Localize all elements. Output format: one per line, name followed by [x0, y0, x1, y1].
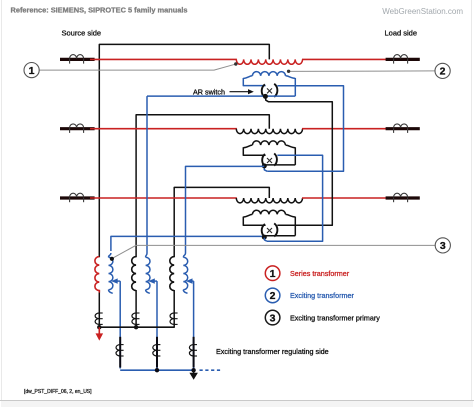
wire AR loop bottom L1 [147, 95, 295, 97]
svg-text:2: 2 [440, 66, 446, 78]
node AR output L3 [262, 235, 267, 240]
winding symbol column3 [170, 313, 174, 324]
wire jog L2 output [264, 166, 267, 171]
node regulating bus column3 [191, 368, 195, 372]
svg-text:1: 1 [29, 65, 35, 77]
legend item 1 series transformer [265, 266, 280, 281]
callout circle 3 [435, 238, 450, 253]
wire column1 red tail [98, 290, 100, 293]
wire AR loop left L3 [243, 214, 252, 217]
svg-text:3: 3 [440, 240, 446, 252]
node bus column1 [97, 325, 101, 329]
exciting transformer primary winding column2 [132, 257, 136, 291]
wire jog L3 output [264, 238, 267, 242]
wire regulating bus continuation dashed [200, 369, 223, 371]
wire AR loop right L3 [286, 214, 296, 217]
wire AR output L1 to L3 loop [265, 97, 332, 225]
svg-text:3: 3 [270, 312, 276, 324]
node regulating bus [155, 368, 159, 372]
AR switch contact arcs L1 [262, 84, 265, 97]
wire center-tap feed L3 [174, 187, 269, 257]
CT source side L3 [60, 196, 95, 199]
wire tap lead column1 [119, 281, 121, 368]
node AR output L2 [262, 163, 267, 168]
svg-text:AR switch: AR switch [193, 87, 225, 96]
regulating winding symbol column2 [156, 337, 158, 368]
wire tap lead column2 [156, 281, 158, 368]
exciting transformer secondary winding L1 [252, 72, 285, 76]
callout circle 2 [435, 63, 450, 78]
exciting transformer secondary winding L3 [252, 210, 285, 214]
exciting transformer secondary winding L2 [252, 141, 285, 145]
exciting transformer primary winding column3 [170, 257, 174, 291]
wire column2 lower [135, 290, 137, 328]
tap arrow column1 [117, 280, 121, 282]
wire exciting secondary L1 link [267, 86, 343, 172]
legend item 3 exciting transformer primary [265, 310, 280, 325]
winding symbol column2 [132, 313, 136, 324]
series transformer winding L1 [236, 59, 302, 64]
regulating winding symbol column1 [119, 337, 121, 368]
AR switch selector cross L3 [267, 228, 272, 233]
svg-text:2: 2 [270, 290, 276, 302]
node AR output L1 [263, 94, 268, 99]
svg-text:1: 1 [270, 268, 276, 280]
terminal arrow exciting primary [98, 327, 100, 334]
AR switch contact arcs L3 [262, 224, 265, 237]
wire regulating feed column2 [146, 96, 148, 253]
wire AR loop right L2 [286, 145, 296, 148]
CT source side L2 [60, 127, 95, 130]
leader callout 2 [289, 70, 435, 73]
wire tap lead column3 [193, 281, 195, 368]
CT load side L2 [386, 127, 420, 130]
svg-text:Load side: Load side [385, 28, 418, 37]
leader callout 1 [39, 64, 235, 70]
series transformer winding L2 [236, 129, 302, 134]
winding symbol column1 [95, 313, 99, 324]
legend item 2 exciting transformer [265, 288, 280, 303]
svg-text:Exciting transformer primary: Exciting transformer primary [290, 313, 380, 322]
wire phase L3 source segment [90, 197, 237, 199]
regulating-side bus [120, 369, 193, 371]
wire center-tap feed L2 [136, 115, 269, 258]
AR switch selector cross L1 [267, 88, 272, 93]
regulating winding column3 [183, 253, 185, 257]
svg-text:Source side: Source side [62, 28, 102, 37]
regulating winding symbol column3 [193, 337, 195, 368]
svg-text:Exciting transformer: Exciting transformer [290, 291, 355, 300]
wire phase L2 source segment [90, 128, 237, 130]
node bus column2 [134, 325, 138, 329]
series transformer winding L3 [236, 198, 302, 203]
tap arrow column3 [191, 280, 193, 282]
star-point bus exciting primary [99, 326, 174, 328]
wire regulating feed column3 [186, 166, 265, 253]
svg-text:Series transformer: Series transformer [290, 269, 350, 278]
svg-text:[dw_PST_DIFF_06, 2, en_US]: [dw_PST_DIFF_06, 2, en_US] [24, 389, 92, 395]
wire AR loop right L1 [286, 76, 296, 79]
wire AR loop bottom L2 [263, 164, 295, 166]
CT load side L3 [386, 196, 420, 199]
terminal arrow regulating side [193, 370, 195, 373]
wire column3 lower [173, 290, 175, 328]
wire AR loop left L1 [243, 76, 252, 79]
wire regulating feed column1 [111, 236, 264, 251]
svg-text:Exciting transformer regulatin: Exciting transformer regulating side [216, 347, 329, 356]
wire phase L3 load segment [302, 197, 389, 199]
wire AR loop left L2 [243, 145, 252, 148]
wire phase L1 source segment [90, 58, 237, 60]
wire phase L1 load segment [302, 58, 389, 60]
wire AR loop bottom L3 [263, 235, 295, 237]
svg-text:WebGreenStation.com: WebGreenStation.com [382, 7, 463, 16]
leader callout 3 [113, 245, 435, 258]
wire column1 lower [98, 290, 100, 328]
wire exciting secondary L2 link [267, 155, 323, 241]
CT load side L1 [386, 58, 420, 61]
exciting transformer primary winding column1 [95, 257, 99, 291]
AR switch selector cross L2 [267, 158, 272, 163]
wire phase L2 load segment [302, 128, 389, 130]
regulating winding column2 [146, 253, 147, 257]
tap arrow column2 [154, 280, 157, 282]
callout circle 1 [24, 63, 39, 78]
CT source side L1 [60, 58, 95, 61]
AR switch contact arcs L2 [262, 154, 265, 166]
regulating winding column1 [109, 253, 111, 257]
svg-text:Reference: SIEMENS, SIPROTEC 5: Reference: SIEMENS, SIPROTEC 5 family ma… [11, 5, 188, 14]
wire center-tap feed L1 [99, 44, 269, 257]
